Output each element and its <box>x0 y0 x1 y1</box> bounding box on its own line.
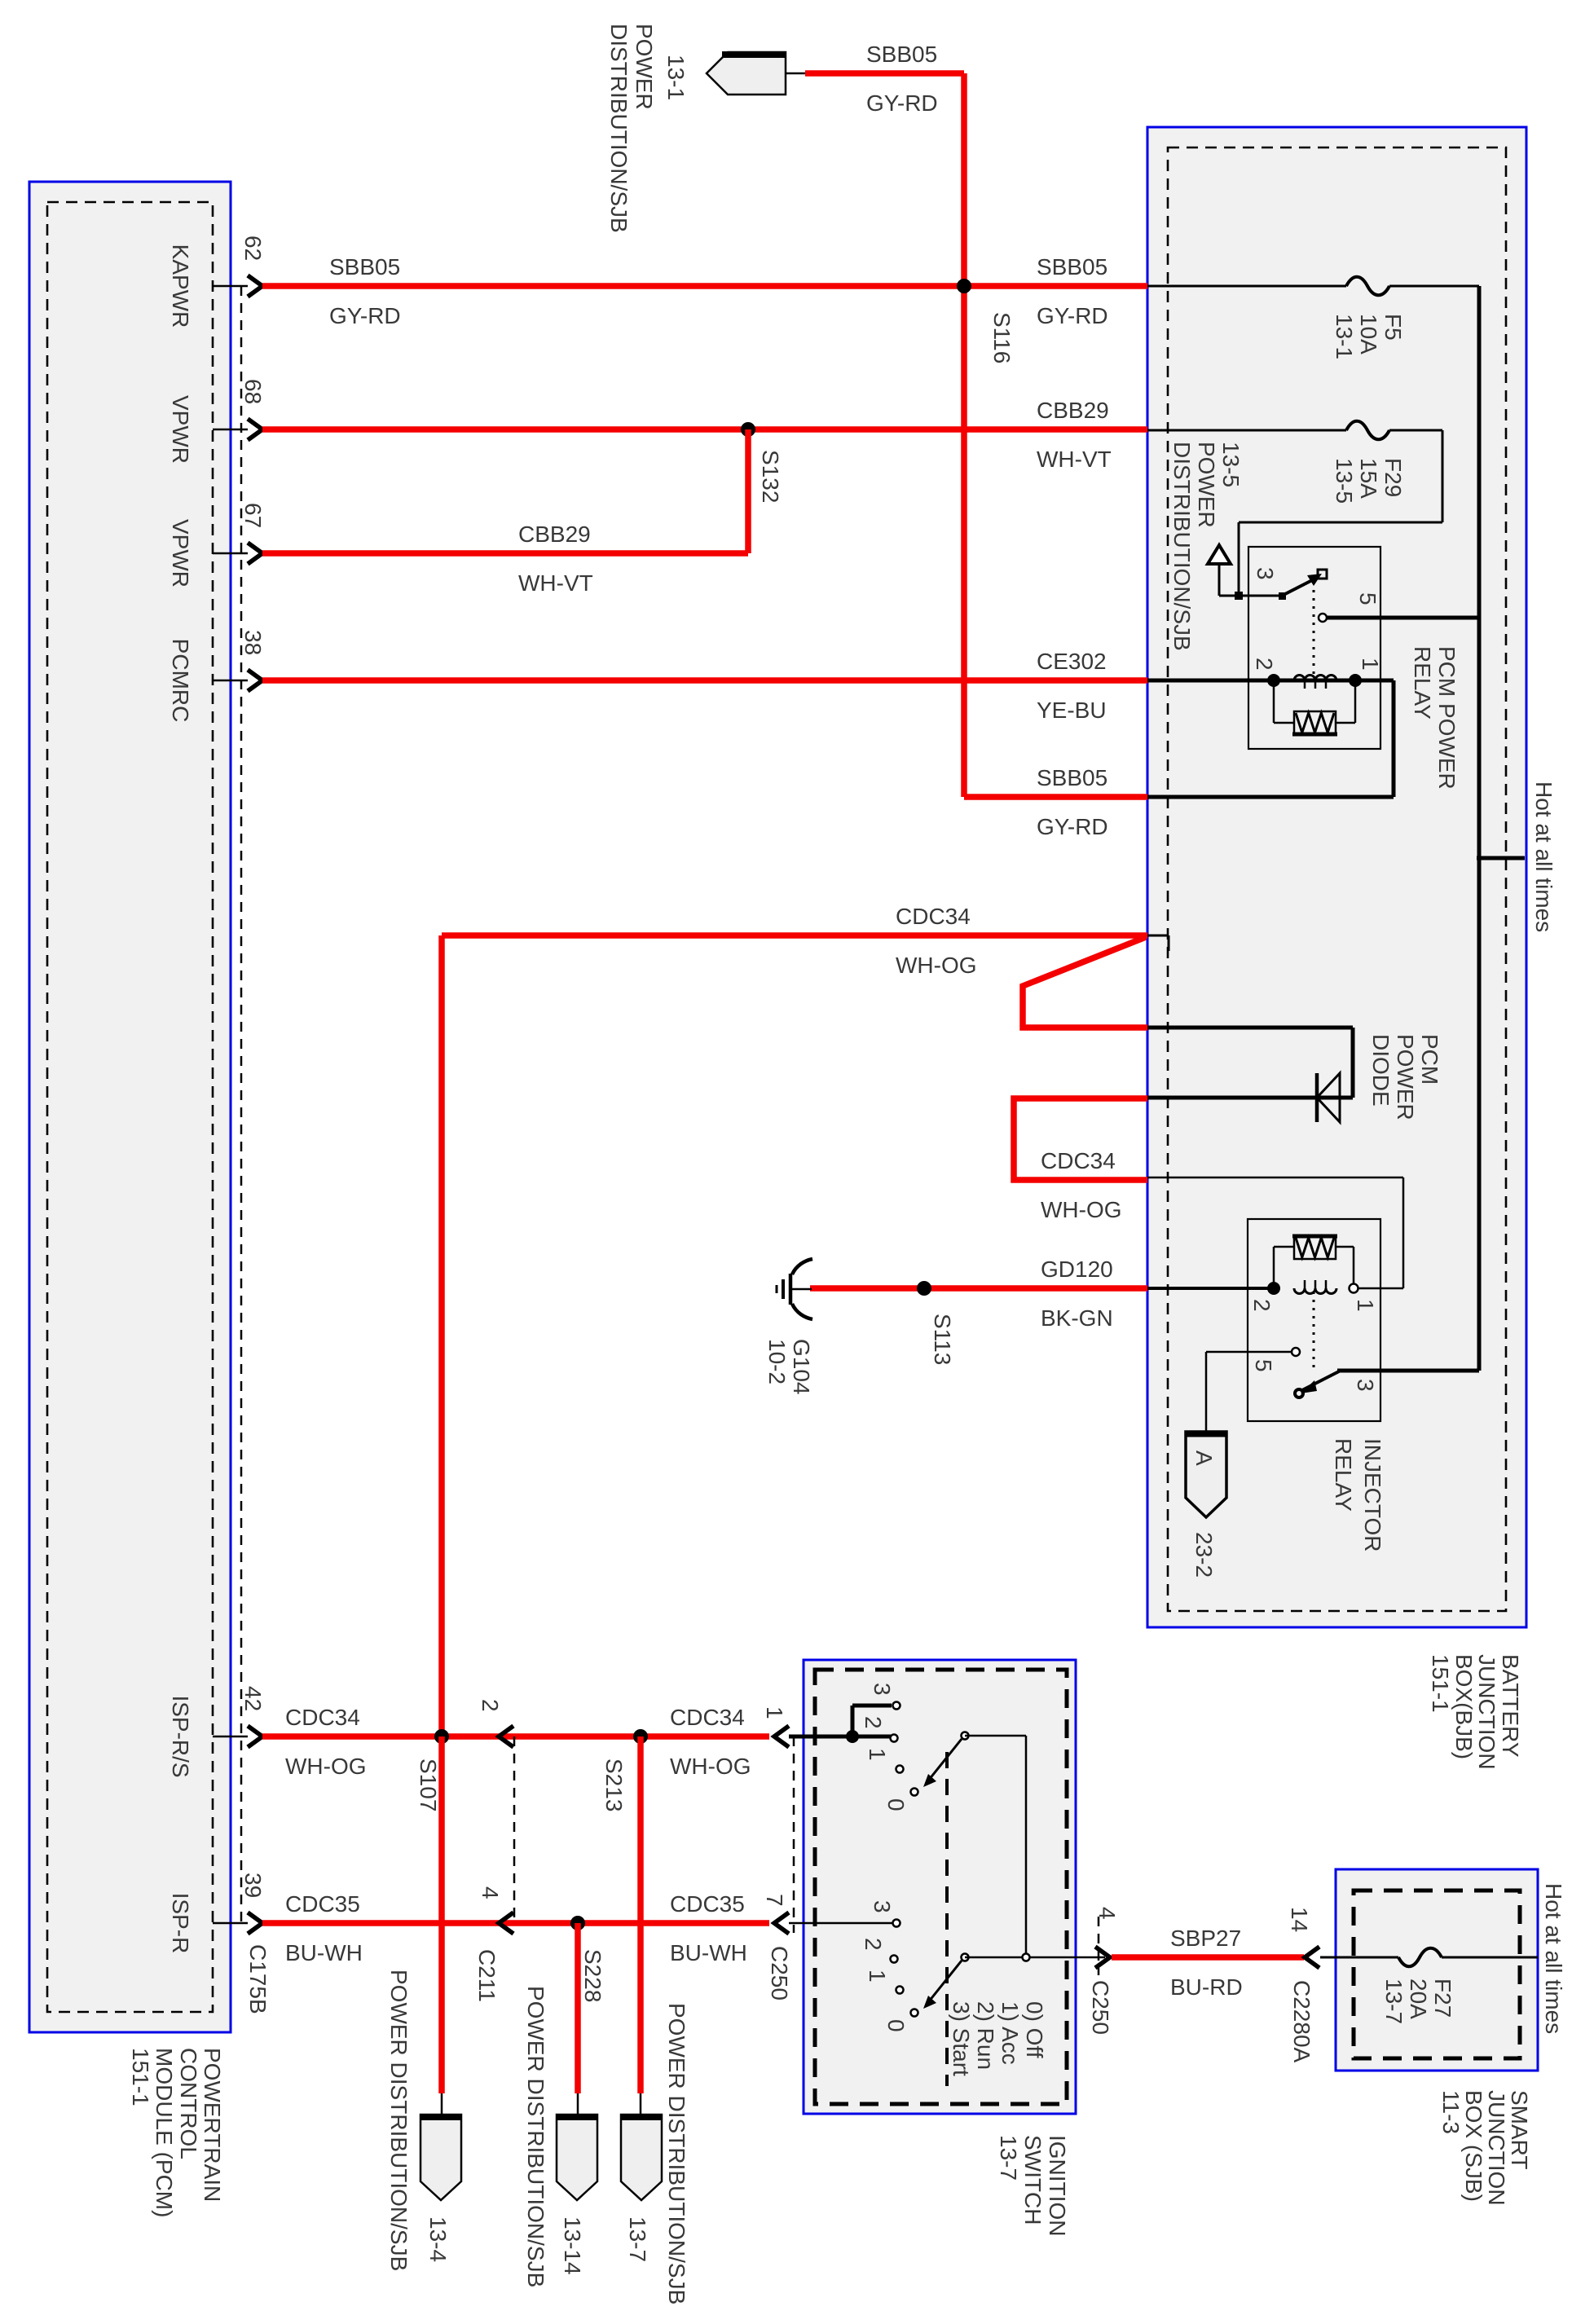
svg-text:38: 38 <box>240 630 266 655</box>
svg-text:POWER DISTRIBUTION/SJB: POWER DISTRIBUTION/SJB <box>523 1986 548 2287</box>
svg-text:CDC34: CDC34 <box>896 904 971 929</box>
svg-text:0: 0 <box>883 2019 909 2032</box>
ignition switch lower rotor arm <box>962 1954 969 1961</box>
svg-text:RELAY: RELAY <box>1410 646 1435 720</box>
svg-text:PCM POWER: PCM POWER <box>1434 646 1460 790</box>
svg-text:VPWR: VPWR <box>168 395 193 464</box>
svg-text:INJECTOR: INJECTOR <box>1360 1438 1385 1552</box>
svg-text:C250: C250 <box>1088 1980 1113 2035</box>
svg-text:PCM: PCM <box>1417 1034 1442 1085</box>
svg-text:3: 3 <box>1253 567 1278 580</box>
PCM inner dashed connector boundary <box>47 202 213 2012</box>
svg-text:VPWR: VPWR <box>168 519 193 588</box>
junction S132 <box>741 422 755 437</box>
wire SBB05 feed to PCM relay pin 1 <box>1392 680 1396 797</box>
junction S113 <box>917 1281 931 1296</box>
svg-text:DISTRIBUTION/SJB: DISTRIBUTION/SJB <box>1169 442 1195 651</box>
wire CDC34 to injector relay pin 1 <box>1358 1287 1403 1290</box>
svg-text:S107: S107 <box>416 1758 441 1811</box>
svg-text:G104: G104 <box>789 1339 814 1395</box>
svg-text:C175B: C175B <box>245 1944 271 2014</box>
junction S213 <box>633 1729 648 1744</box>
svg-text:POWER DISTRIBUTION/SJB: POWER DISTRIBUTION/SJB <box>664 2003 689 2304</box>
injector relay pin 5 contact <box>1292 1348 1300 1356</box>
relay INJECTOR RELAY box <box>1248 1219 1380 1421</box>
svg-text:67: 67 <box>240 503 266 528</box>
svg-text:F5: F5 <box>1380 314 1406 341</box>
svg-text:C250: C250 <box>767 1946 792 2000</box>
svg-text:GY-RD: GY-RD <box>329 303 401 328</box>
svg-text:23-2: 23-2 <box>1191 1532 1217 1578</box>
wire lower pole to C250 pin 4 <box>965 1956 1105 1959</box>
relay PCM POWER RELAY box <box>1248 547 1380 749</box>
svg-text:11-3: 11-3 <box>1438 2090 1464 2134</box>
wire SBB05 vertical through S116 down to BJB entry <box>961 73 967 797</box>
C250 pin 4 arrow <box>1095 1947 1110 1968</box>
svg-text:10-2: 10-2 <box>764 1339 790 1384</box>
Hot at all times tap (upper) <box>1477 856 1525 860</box>
svg-text:GY-RD: GY-RD <box>1037 303 1108 328</box>
wire CDC34 vertical S107 down to connector 13-4 <box>438 1736 445 2093</box>
off-page connector pentagon 13-1 POWER DISTRIBUTION/SJB <box>707 52 786 95</box>
node junction at 13-5 branch <box>1235 592 1243 600</box>
wire CBB29 vertical S132 down to pin 67 wire <box>745 429 751 553</box>
svg-text:WH-OG: WH-OG <box>1041 1197 1122 1222</box>
wire CDC34 stub at BJB boundary <box>1147 935 1169 937</box>
C211 pin 2 arrow <box>499 1726 513 1747</box>
svg-text:JUNCTION: JUNCTION <box>1474 1654 1499 1770</box>
ground symbol G104 <box>792 1259 812 1274</box>
connector C250 dashed line (right) <box>1098 1917 1100 1975</box>
svg-text:2: 2 <box>861 1938 886 1951</box>
svg-text:3) Start: 3) Start <box>949 2001 974 2076</box>
wire CDC34 U-link diode cathode to injector coil feed <box>1014 1098 1147 1180</box>
svg-text:IGNITION: IGNITION <box>1045 2135 1070 2236</box>
svg-text:SBB05: SBB05 <box>866 42 937 67</box>
injector relay suppression resistor <box>1294 1235 1336 1259</box>
module PCM box (POWERTRAIN CONTROL MODULE) outline <box>29 182 231 2032</box>
PCM relay coil junction pin 1 <box>1349 674 1362 687</box>
svg-text:3: 3 <box>870 1683 895 1696</box>
junction S116 <box>957 279 971 293</box>
svg-text:1: 1 <box>865 1970 890 1983</box>
connector C250 dashed line (left) <box>793 1736 795 1933</box>
svg-text:RELAY: RELAY <box>1331 1438 1356 1512</box>
PCM pin 39 ISP-R terminal <box>213 1922 248 1925</box>
svg-text:0) Off: 0) Off <box>1022 2001 1047 2058</box>
svg-text:CDC35: CDC35 <box>285 1891 360 1917</box>
svg-text:F27: F27 <box>1430 1978 1455 2018</box>
svg-text:GY-RD: GY-RD <box>1037 814 1108 839</box>
svg-text:CBB29: CBB29 <box>518 522 591 547</box>
wire SBB05 GY-RD pin 62 to BJB <box>262 283 1147 289</box>
svg-text:CDC35: CDC35 <box>670 1891 745 1917</box>
hot feed bus from F5 down right side of BJB <box>1477 286 1482 1371</box>
ignition feed junction <box>846 1730 859 1743</box>
wire stub from pentagon 13-1 <box>786 73 807 75</box>
svg-text:GY-RD: GY-RD <box>866 90 938 116</box>
svg-text:S213: S213 <box>601 1758 627 1811</box>
svg-text:BOX(BJB): BOX(BJB) <box>1451 1654 1477 1759</box>
PCM relay switch arm pin 3 to contact <box>1279 592 1286 600</box>
svg-text:BATTERY: BATTERY <box>1498 1654 1523 1758</box>
wire CDC34 vertical S107 column <box>438 935 445 1736</box>
injector relay coil pin 1 terminal <box>1350 1284 1358 1293</box>
SJB inner heavy dashed boundary <box>1354 1890 1520 2058</box>
svg-text:68: 68 <box>240 379 266 404</box>
svg-text:SBB05: SBB05 <box>1037 254 1107 279</box>
svg-text:SBP27: SBP27 <box>1170 1926 1241 1951</box>
svg-text:1) Acc: 1) Acc <box>997 2001 1023 2065</box>
wire C250 pin 7 to lower terminal 3 <box>789 1922 892 1925</box>
svg-text:151-1: 151-1 <box>1428 1654 1453 1713</box>
svg-text:14: 14 <box>1287 1907 1312 1932</box>
svg-text:2) Run: 2) Run <box>973 2001 998 2070</box>
svg-text:POWER: POWER <box>1393 1034 1418 1120</box>
svg-text:KAPWR: KAPWR <box>168 244 193 328</box>
svg-text:15A: 15A <box>1356 458 1381 499</box>
svg-text:1: 1 <box>1353 1299 1378 1312</box>
svg-text:0: 0 <box>883 1798 909 1811</box>
PCM pin 42 ISP-R/S terminal <box>213 1736 248 1738</box>
svg-text:BK-GN: BK-GN <box>1041 1305 1113 1331</box>
svg-text:13-5: 13-5 <box>1332 458 1357 504</box>
PCM pin 68 VPWR terminal <box>213 429 248 431</box>
wire CBB29 WH-VT pin 67 to S132 column <box>262 550 748 557</box>
injector relay switch arm pin 3 <box>1302 1371 1339 1390</box>
BJB inner dashed boundary <box>1168 147 1506 1611</box>
svg-text:CE302: CE302 <box>1037 649 1107 674</box>
C250 pin 1 arrow <box>774 1726 789 1747</box>
svg-text:10A: 10A <box>1356 314 1381 354</box>
svg-text:5: 5 <box>1251 1359 1276 1372</box>
svg-text:GD120: GD120 <box>1041 1257 1113 1282</box>
svg-text:S116: S116 <box>989 312 1015 363</box>
svg-text:13-14: 13-14 <box>560 2216 585 2275</box>
svg-text:CDC34: CDC34 <box>670 1705 745 1730</box>
svg-text:MODULE (PCM): MODULE (PCM) <box>152 2048 177 2217</box>
svg-text:SBB05: SBB05 <box>1037 765 1107 790</box>
svg-text:13-4: 13-4 <box>425 2216 451 2262</box>
PCM relay coil between pins 2 and 1 <box>1147 679 1274 683</box>
svg-text:BOX (SJB): BOX (SJB) <box>1461 2090 1486 2202</box>
wire CE302 YE-BU pin 38 to BJB relay coil <box>262 677 1147 684</box>
wire CBB29 WH-VT pin 68 to BJB fuse F29 <box>262 426 1147 433</box>
svg-text:ISP-R: ISP-R <box>168 1893 193 1954</box>
module BJB box (BATTERY JUNCTION BOX) outline <box>1147 127 1526 1627</box>
svg-text:2: 2 <box>861 1716 886 1729</box>
PCM pin 38 PCMRC terminal <box>213 680 248 682</box>
svg-text:POWER: POWER <box>632 24 657 110</box>
module IGNITION SWITCH box outline <box>804 1660 1076 2114</box>
svg-text:4: 4 <box>1094 1907 1120 1920</box>
diode PCM POWER DIODE <box>1147 1026 1353 1030</box>
svg-text:SMART: SMART <box>1507 2090 1532 2170</box>
wire CDC34 zigzag jog into diode anode <box>1023 937 1147 1028</box>
off-page connector pentagon 13-7 POWER DISTRIBUTION/SJB <box>640 2093 642 2115</box>
PCM relay fixed contact (movable end) <box>1318 570 1327 579</box>
svg-text:13-5: 13-5 <box>1218 442 1244 487</box>
svg-text:CONTROL: CONTROL <box>176 2048 201 2159</box>
svg-text:BU-WH: BU-WH <box>670 1940 747 1965</box>
svg-text:PCMRC: PCMRC <box>168 639 193 723</box>
on-page arrow 13-5 POWER DISTRIBUTION/SJB (up triangle) <box>1218 563 1221 596</box>
svg-text:13-7: 13-7 <box>1381 1978 1407 2024</box>
svg-text:BU-WH: BU-WH <box>285 1940 363 1965</box>
fuse F5 10A 13-1 <box>1147 285 1346 288</box>
svg-text:CDC34: CDC34 <box>1041 1148 1116 1173</box>
svg-text:SBB05: SBB05 <box>329 254 400 279</box>
ignition switch lower terminals 3 2 1 0 <box>893 1920 900 1927</box>
ignition switch internal dashed divider <box>945 1752 949 2086</box>
svg-text:CBB29: CBB29 <box>1037 398 1109 423</box>
svg-text:42: 42 <box>240 1686 266 1711</box>
ignition feed wire pin 1 to run/start terminals <box>789 1735 891 1739</box>
svg-text:151-1: 151-1 <box>128 2048 153 2106</box>
svg-text:1: 1 <box>1358 658 1383 671</box>
PCM pin 62 KAPWR terminal <box>213 285 248 288</box>
C2280A pin 14 arrow <box>1305 1947 1319 1968</box>
svg-text:DIODE: DIODE <box>1368 1034 1394 1107</box>
C211 pin 4 arrow <box>499 1912 513 1934</box>
svg-text:WH-OG: WH-OG <box>285 1754 367 1779</box>
wire injector relay pin 3 to hot bus <box>1337 1369 1479 1373</box>
svg-text:Hot at all times: Hot at all times <box>1531 781 1557 932</box>
svg-text:Hot at all times: Hot at all times <box>1541 1883 1566 2034</box>
svg-text:S113: S113 <box>930 1314 955 1365</box>
wire CDC34 vertical S213 down to connector 13-7 <box>637 1736 644 2093</box>
off-page connector pentagon A 23-2 <box>1205 1352 1208 1432</box>
fuse F27 20A 13-7 <box>1320 1956 1398 1959</box>
svg-text:POWER: POWER <box>1194 442 1219 528</box>
svg-text:13-7: 13-7 <box>996 2135 1021 2181</box>
svg-text:20A: 20A <box>1406 1978 1431 2019</box>
svg-text:JUNCTION: JUNCTION <box>1484 2090 1509 2206</box>
svg-text:3: 3 <box>1353 1379 1378 1392</box>
PCM relay dotted actuation link <box>1313 582 1315 676</box>
injector relay dotted actuation link <box>1313 1292 1315 1367</box>
wire CDC35 vertical S228 down to connector 13-14 <box>575 1923 581 2093</box>
injector relay coil junction pin 2 <box>1267 1282 1280 1295</box>
wire F29 output to PCM power relay switch <box>1442 430 1444 522</box>
junction S107 <box>434 1729 449 1744</box>
wire CDC34 WH-OG pin 42 to ignition switch C250 pin 1 <box>262 1733 769 1740</box>
svg-text:SWITCH: SWITCH <box>1020 2135 1046 2225</box>
svg-text:39: 39 <box>240 1873 266 1898</box>
svg-text:13-7: 13-7 <box>625 2216 650 2262</box>
fuse F29 15A 13-5 <box>1147 429 1346 432</box>
wire SBP27 BU-RD C250 to SJB C2280A <box>1112 1954 1304 1961</box>
off-page connector pentagon 13-14 POWER DISTRIBUTION/SJB <box>577 2093 579 2115</box>
svg-text:S132: S132 <box>758 450 783 503</box>
svg-text:WH-OG: WH-OG <box>670 1754 751 1779</box>
injector relay coil between pins 2 and 1 <box>1147 1287 1274 1290</box>
svg-text:1: 1 <box>762 1706 787 1719</box>
connector C175B dashed line <box>240 286 243 1923</box>
svg-text:13-1: 13-1 <box>663 55 689 100</box>
svg-text:13-1: 13-1 <box>1332 314 1357 359</box>
svg-text:2: 2 <box>1252 658 1277 671</box>
wire SBB05 GY-RD re-entry to BJB at relay <box>964 794 1147 800</box>
svg-text:2: 2 <box>1249 1299 1275 1312</box>
svg-text:WH-VT: WH-VT <box>1037 447 1112 472</box>
C250 pin 7 arrow <box>774 1912 789 1934</box>
PCM pin 67 VPWR terminal <box>213 552 248 555</box>
wire CDC34 WH-OG main horizontal from BJB to S107 column <box>442 932 1147 939</box>
ignition switch upper arm wire to lower pole <box>965 1735 1026 1737</box>
svg-text:C211: C211 <box>474 1949 500 2002</box>
ignition switch inner heavy dashed boundary <box>815 1670 1067 2104</box>
svg-text:62: 62 <box>240 235 266 261</box>
svg-text:WH-OG: WH-OG <box>896 953 977 978</box>
PCM relay pin 5 contact and output <box>1319 614 1327 622</box>
svg-text:POWERTRAIN: POWERTRAIN <box>200 2048 225 2202</box>
ignition switch upper terminals 3 2 1 0 <box>893 1702 900 1710</box>
junction S228 <box>570 1916 585 1930</box>
off-page connector pentagon 13-4 POWER DISTRIBUTION/SJB <box>441 2093 443 2115</box>
svg-text:3: 3 <box>870 1900 895 1913</box>
wire GD120 BK-GN ground to injector relay coil <box>810 1285 1147 1292</box>
svg-text:YE-BU: YE-BU <box>1037 698 1107 723</box>
svg-text:DISTRIBUTION/SJB: DISTRIBUTION/SJB <box>606 24 632 233</box>
svg-text:5: 5 <box>1355 592 1380 605</box>
module SJB box (SMART JUNCTION BOX) outline <box>1336 1869 1538 2071</box>
svg-text:2: 2 <box>478 1699 503 1712</box>
svg-text:BU-RD: BU-RD <box>1170 1974 1243 2000</box>
wire CDC35 BU-WH pin 39 to ignition switch C250 pin 7 <box>262 1920 769 1926</box>
ignition switch upper rotor arm <box>962 1732 969 1740</box>
svg-text:S228: S228 <box>580 1949 605 2002</box>
wire SBB05 GY-RD from 13-1 connector to S116 column <box>805 70 964 77</box>
svg-text:1: 1 <box>865 1748 890 1761</box>
svg-text:4: 4 <box>478 1886 503 1899</box>
svg-text:7: 7 <box>762 1894 787 1907</box>
in-line connector C211 dashed line <box>513 1736 516 1923</box>
svg-text:A: A <box>1191 1450 1217 1466</box>
svg-text:ISP-R/S: ISP-R/S <box>168 1695 193 1777</box>
PCM relay suppression resistor <box>1273 680 1275 723</box>
svg-text:WH-VT: WH-VT <box>518 570 593 596</box>
svg-text:C2280A: C2280A <box>1289 1980 1314 2063</box>
svg-text:F29: F29 <box>1380 458 1406 497</box>
PCM relay coil junction pin 2 <box>1267 674 1280 687</box>
svg-text:CDC34: CDC34 <box>285 1705 360 1730</box>
svg-text:POWER DISTRIBUTION/SJB: POWER DISTRIBUTION/SJB <box>386 1970 412 2271</box>
